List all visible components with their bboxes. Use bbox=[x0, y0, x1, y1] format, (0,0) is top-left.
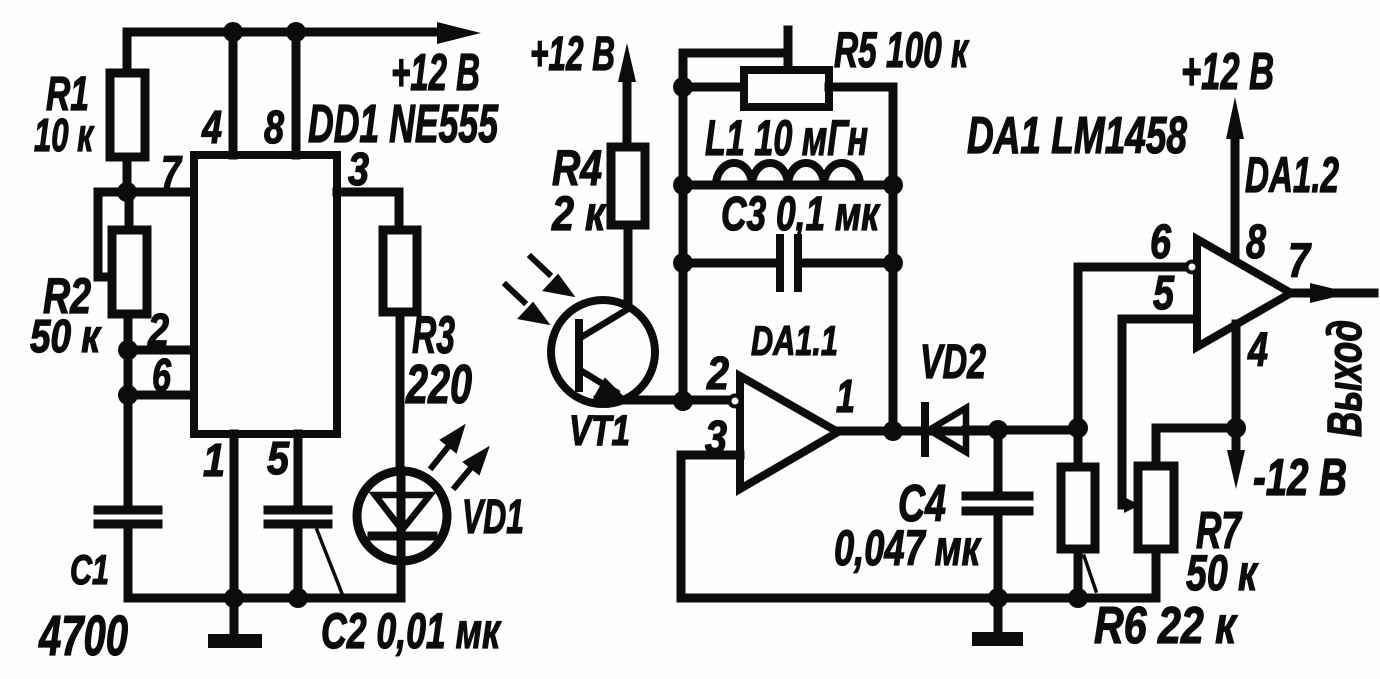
wire C3 rail bbox=[683, 259, 893, 268]
wire pin6 net bbox=[1078, 267, 1186, 428]
svg-text:C2 0,01 мк: C2 0,01 мк bbox=[321, 603, 502, 659]
node junction pin6 bbox=[118, 385, 138, 405]
arrow VD1 emission 2 bbox=[455, 463, 475, 487]
wire feedback left rail bbox=[679, 53, 688, 401]
svg-text:VD1: VD1 bbox=[462, 491, 524, 544]
wire R1 bottom lead bbox=[123, 157, 132, 192]
wire R6 top lead bbox=[1074, 428, 1083, 467]
wire R1 top lead bbox=[123, 32, 132, 73]
svg-text:2: 2 bbox=[706, 347, 729, 399]
arrow VD1 emission 1 bbox=[432, 442, 452, 467]
node junction pin1 ground bbox=[224, 588, 244, 608]
svg-text:7: 7 bbox=[161, 146, 183, 198]
node junction pin7 bbox=[117, 182, 137, 202]
node junction pin8 top bbox=[286, 22, 306, 42]
wire R3 bottom lead bbox=[396, 312, 405, 470]
svg-text:3: 3 bbox=[705, 411, 727, 463]
node junction L1 right bbox=[883, 175, 903, 195]
diode VD2 bbox=[921, 406, 929, 453]
svg-text:6: 6 bbox=[152, 349, 171, 401]
node junction pin4 top bbox=[223, 22, 243, 42]
node junction R6 ground bbox=[1068, 588, 1088, 608]
wire R2 bottom lead bbox=[124, 314, 133, 350]
resistor R1 bbox=[110, 73, 145, 157]
wire pin 1 bbox=[230, 434, 239, 598]
wire R2 top lead bbox=[125, 192, 134, 230]
svg-text:VT1: VT1 bbox=[569, 407, 630, 455]
svg-text:5: 5 bbox=[267, 432, 290, 484]
svg-text:DA1.1: DA1.1 bbox=[751, 317, 838, 364]
svg-text:4700: 4700 bbox=[38, 604, 128, 668]
svg-text:8: 8 bbox=[264, 101, 284, 153]
arrow light 2 into VT1 bbox=[506, 285, 524, 302]
svg-text:DA1.2: DA1.2 bbox=[1245, 147, 1339, 203]
resistor R2 bbox=[112, 230, 147, 314]
op-amp DA1.1 bbox=[740, 376, 838, 489]
node junction pin2 bbox=[118, 340, 138, 360]
svg-text:L1 10 мГн: L1 10 мГн bbox=[705, 110, 868, 166]
svg-text:DA1 LM1458: DA1 LM1458 bbox=[967, 107, 1187, 165]
resistor R6 bbox=[1061, 467, 1095, 549]
node junction C3 right bbox=[883, 253, 903, 273]
svg-text:50 к: 50 к bbox=[30, 310, 102, 362]
wire feedback top bbox=[683, 49, 788, 58]
wire pin 7 bbox=[127, 188, 194, 197]
wire +12V top rail bbox=[127, 28, 440, 37]
wire pin 6 bbox=[128, 391, 194, 400]
svg-text:5: 5 bbox=[1153, 267, 1175, 320]
ground bbox=[230, 598, 239, 634]
wire ground bus right bbox=[681, 594, 1156, 603]
resistor R4 bbox=[611, 147, 645, 225]
resistor R7 bbox=[1138, 466, 1174, 549]
node junction right rail output bbox=[883, 421, 903, 441]
wire R6 bottom lead bbox=[1074, 549, 1083, 598]
resistor R5 bbox=[744, 70, 829, 107]
svg-text:2 к: 2 к bbox=[551, 188, 607, 241]
wire ground bus left bbox=[128, 594, 399, 603]
wire down to C1 bbox=[124, 395, 133, 506]
arrowhead -12V bbox=[1227, 450, 1245, 489]
node junction C3 left bbox=[673, 253, 693, 273]
led VD1 bbox=[357, 471, 447, 561]
svg-text:VD2: VD2 bbox=[920, 336, 986, 389]
svg-text:0,047 мк: 0,047 мк bbox=[834, 520, 982, 576]
wire C1 bottom lead bbox=[124, 528, 133, 598]
svg-text:Выход: Выход bbox=[1319, 320, 1372, 437]
arrowhead +12V rail bbox=[437, 22, 481, 44]
svg-text:4: 4 bbox=[1247, 324, 1268, 377]
svg-text:3: 3 bbox=[348, 143, 369, 195]
wire R5 right lead bbox=[829, 83, 893, 92]
wire R2 wiper bypass bbox=[98, 192, 127, 277]
wire pin 5 bbox=[294, 434, 303, 506]
node junction R6 top bbox=[1068, 418, 1088, 438]
capacitor C1 bbox=[98, 510, 158, 524]
svg-text:7: 7 bbox=[1288, 235, 1312, 288]
wire pin 3 to ground bus bbox=[681, 455, 740, 598]
svg-text:10 к: 10 к bbox=[34, 109, 95, 161]
wire R7 bottom lead bbox=[1152, 549, 1161, 598]
svg-text:DD1 NE555: DD1 NE555 bbox=[308, 94, 499, 154]
ground right bbox=[994, 598, 1003, 632]
wire +12V arrow middle bbox=[623, 80, 632, 147]
node junction C4 ground bbox=[988, 588, 1008, 608]
capacitor C4 bbox=[994, 430, 1003, 492]
node junction C2 ground bbox=[288, 588, 308, 608]
svg-text:C1: C1 bbox=[70, 546, 109, 593]
phototransistor VT1 bbox=[551, 300, 655, 404]
wire DA1.2 output bbox=[1291, 289, 1374, 298]
node junction -12V bbox=[1226, 418, 1246, 438]
wire pin 3 bbox=[337, 192, 399, 230]
svg-text:50 к: 50 к bbox=[1186, 545, 1259, 601]
wire feedback right rail bbox=[889, 87, 898, 430]
wire R4 bottom lead bbox=[624, 225, 633, 310]
wire +12V arrow DA1.2 pin8 bbox=[1231, 137, 1240, 256]
wiper R7 bbox=[1122, 501, 1127, 510]
wire DA1.1 output bbox=[838, 427, 998, 436]
wire R5 left lead bbox=[683, 83, 744, 92]
svg-text:6: 6 bbox=[1150, 216, 1171, 269]
wire between pin2 and pin6 bbox=[124, 350, 133, 395]
svg-text:220: 220 bbox=[405, 353, 472, 415]
wire C2 bottom lead bbox=[294, 528, 303, 598]
svg-text:R6 22 к: R6 22 к bbox=[1094, 597, 1238, 655]
wire pin 2 bbox=[128, 346, 194, 355]
wire R7 top lead to -12V bbox=[1156, 428, 1236, 466]
wire pin 4 bbox=[229, 32, 238, 155]
ic DD1 NE555 bbox=[194, 155, 337, 434]
wire VD2 to C4 node bbox=[966, 426, 1080, 435]
wire pin5 net bbox=[1122, 319, 1197, 502]
svg-text:4: 4 bbox=[201, 101, 222, 153]
svg-text:R5 100 к: R5 100 к bbox=[834, 22, 970, 78]
op-amp DA1.2 bbox=[1197, 239, 1291, 347]
resistor R3 bbox=[383, 230, 417, 312]
wire pin 8 bbox=[292, 32, 301, 155]
svg-text:1: 1 bbox=[203, 434, 225, 486]
arrow light 1 into VT1 bbox=[531, 257, 549, 274]
node junction pin2 DA1.1 bbox=[673, 391, 693, 411]
node junction R5 left bbox=[673, 77, 693, 97]
inductor L1 bbox=[716, 163, 860, 185]
svg-text:C3 0,1 мк: C3 0,1 мк bbox=[721, 188, 881, 241]
node junction L1 left bbox=[673, 175, 693, 195]
svg-text:8: 8 bbox=[1246, 216, 1266, 269]
leader line R6 label bbox=[1084, 556, 1096, 591]
svg-text:+12 В: +12 В bbox=[1181, 43, 1274, 101]
wire VT1 emitter to pin2 bbox=[598, 396, 732, 405]
svg-text:+12 В: +12 В bbox=[530, 28, 615, 81]
capacitor C2 bbox=[268, 510, 328, 524]
wire stub above R5 bbox=[784, 30, 793, 71]
svg-text:1: 1 bbox=[836, 370, 855, 422]
svg-text:-12 В: -12 В bbox=[1253, 449, 1347, 507]
arrowhead output bbox=[1310, 283, 1351, 303]
wire L1 rail bbox=[683, 181, 893, 190]
capacitor C3 bbox=[780, 238, 798, 288]
leader line C2 label bbox=[317, 530, 343, 596]
wire pin4 to -12V arrow bbox=[1232, 324, 1241, 452]
node junction C4 bbox=[988, 420, 1008, 440]
